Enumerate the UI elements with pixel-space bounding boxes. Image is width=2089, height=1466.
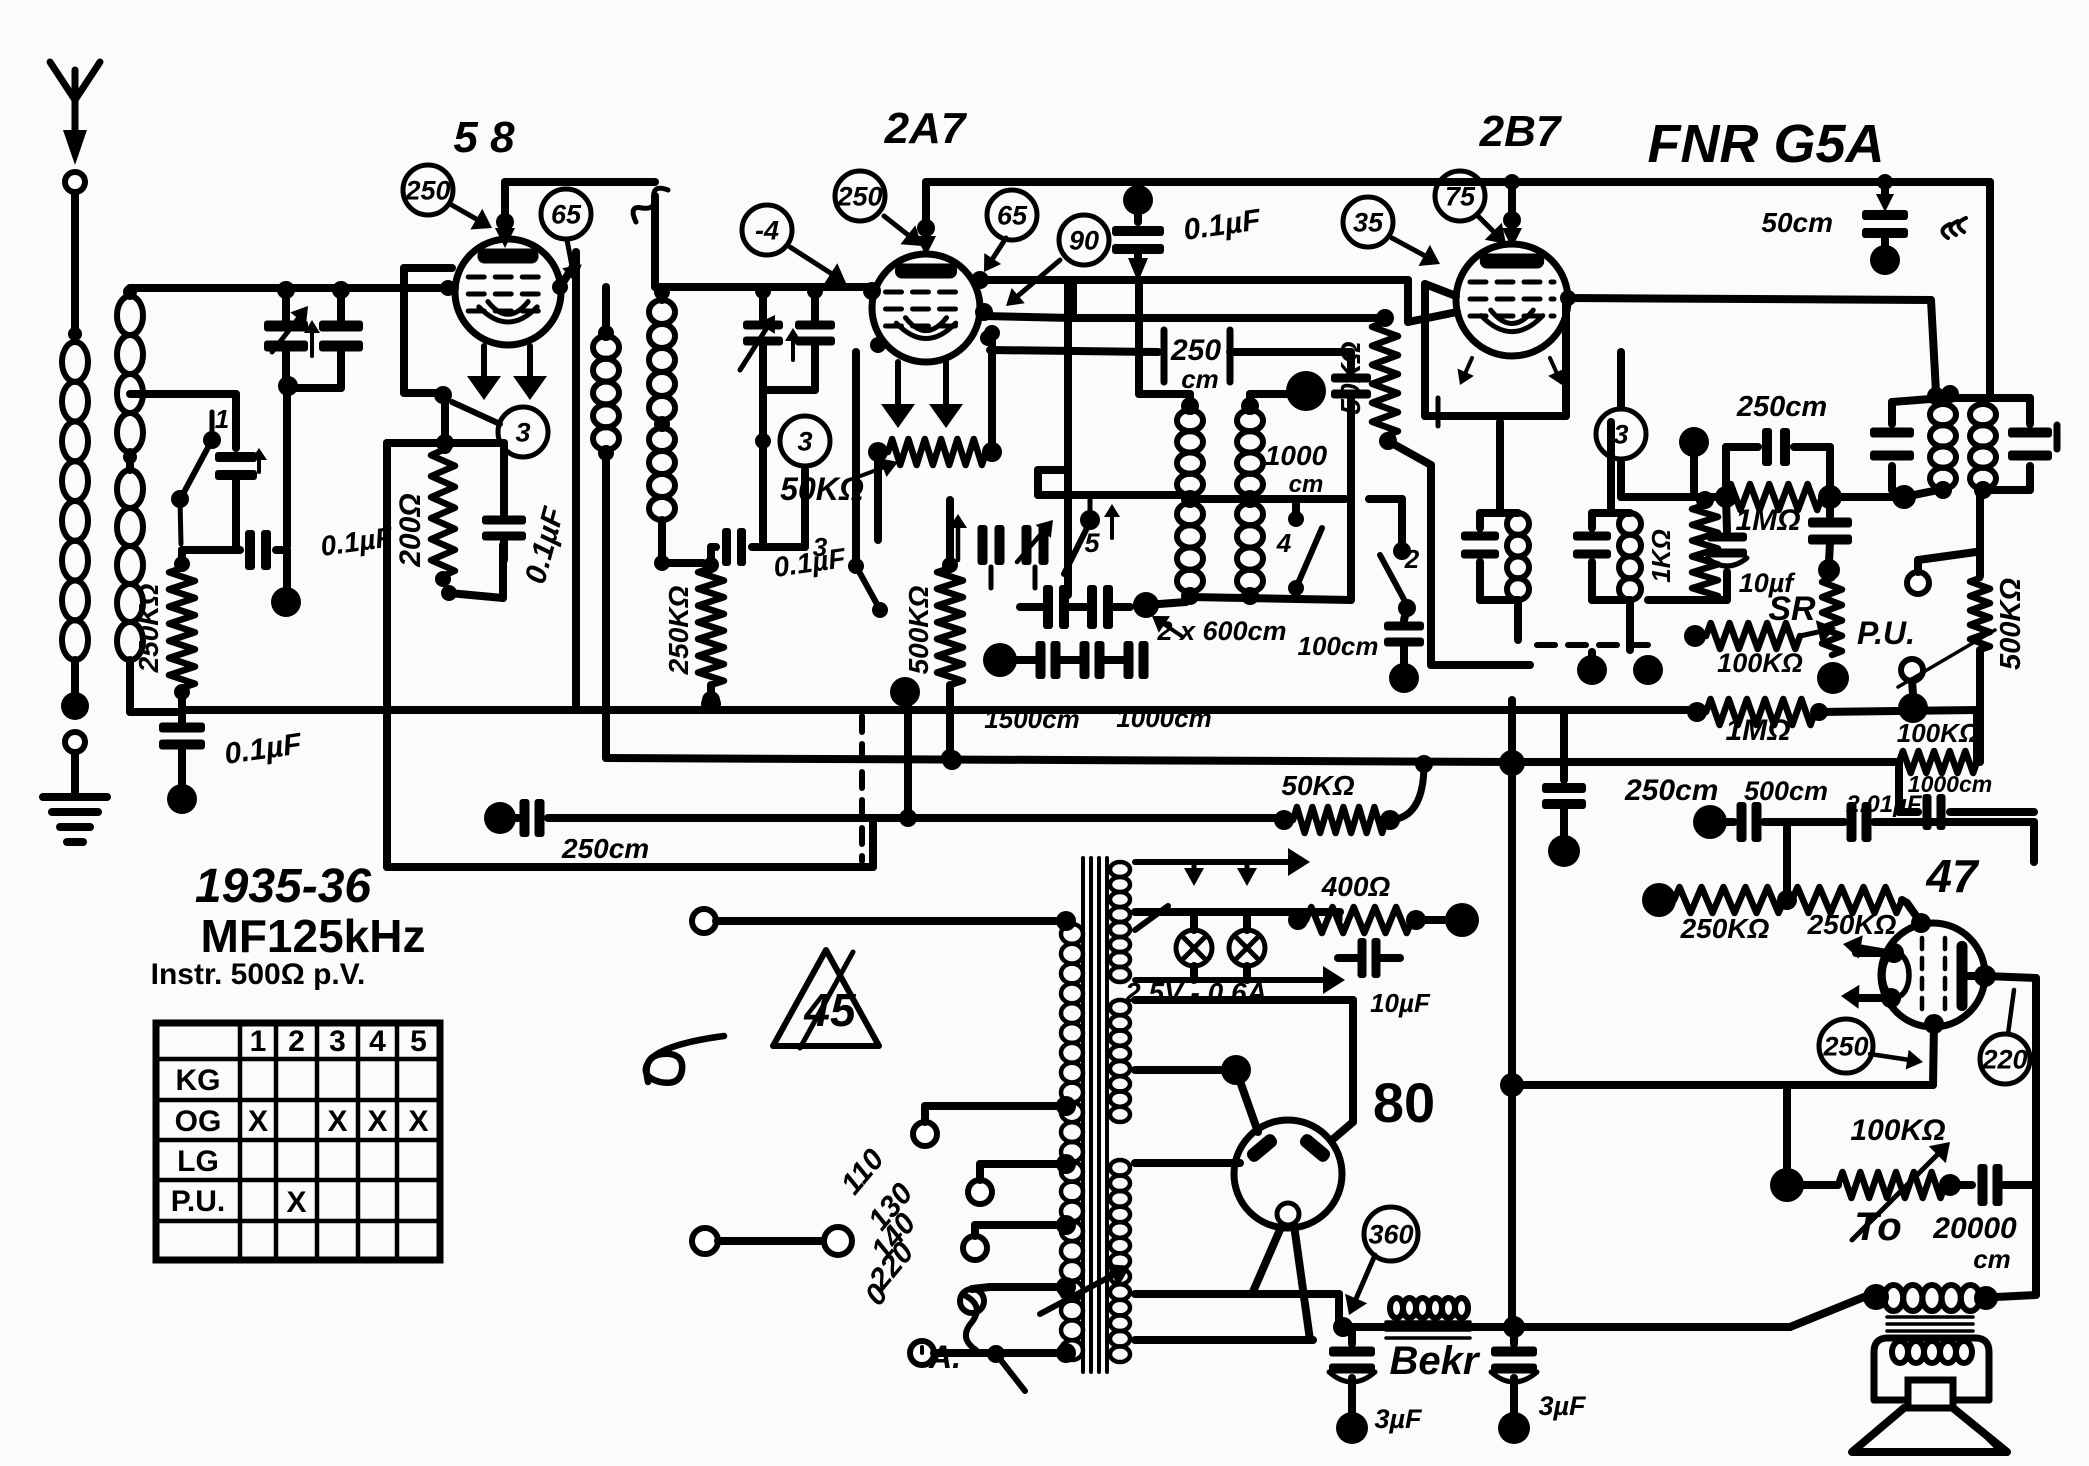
svg-text:2: 2 [1404, 544, 1420, 574]
svg-text:500cm: 500cm [1744, 776, 1828, 806]
svg-text:1000: 1000 [1265, 440, 1328, 471]
svg-text:1: 1 [250, 1025, 267, 1058]
svg-text:100KΩ: 100KΩ [1717, 648, 1803, 678]
svg-text:250KΩ: 250KΩ [133, 583, 164, 673]
svg-text:P.U.: P.U. [171, 1185, 225, 1218]
svg-text:1MΩ: 1MΩ [1725, 714, 1790, 747]
svg-text:250: 250 [1822, 1031, 1868, 1061]
svg-text:X: X [327, 1105, 347, 1138]
svg-text:20000: 20000 [1932, 1212, 2017, 1245]
svg-text:3: 3 [813, 532, 828, 562]
svg-text:220: 220 [1981, 1044, 2027, 1074]
svg-text:50KΩ: 50KΩ [780, 471, 864, 507]
svg-text:4: 4 [369, 1025, 386, 1058]
svg-text:65: 65 [997, 200, 1028, 230]
svg-text:5: 5 [1084, 528, 1100, 558]
svg-text:2B7: 2B7 [1479, 107, 1563, 156]
svg-text:250KΩ: 250KΩ [1807, 909, 1897, 940]
svg-text:50KΩ: 50KΩ [1335, 341, 1366, 414]
svg-text:3: 3 [1613, 419, 1628, 449]
svg-text:80: 80 [1373, 1071, 1435, 1134]
svg-text:250cm: 250cm [1624, 774, 1718, 807]
svg-text:3µF: 3µF [1374, 1404, 1423, 1434]
svg-text:50KΩ: 50KΩ [1281, 770, 1354, 801]
svg-text:KG: KG [176, 1064, 221, 1097]
svg-text:To: To [1854, 1205, 1901, 1249]
svg-text:A.: A. [928, 1339, 961, 1375]
svg-text:cm: cm [1973, 1244, 2011, 1274]
svg-text:360: 360 [1368, 1219, 1413, 1249]
svg-text:500KΩ: 500KΩ [903, 585, 934, 674]
svg-text:Instr. 500Ω p.V.: Instr. 500Ω p.V. [151, 958, 366, 991]
svg-text:Bekr: Bekr [1390, 1339, 1481, 1383]
svg-text:3: 3 [515, 417, 530, 447]
svg-text:250: 250 [1170, 334, 1221, 367]
svg-text:3: 3 [329, 1025, 346, 1058]
svg-text:47: 47 [1925, 850, 1980, 902]
svg-text:5: 5 [410, 1025, 427, 1058]
svg-text:P.U.: P.U. [1857, 615, 1915, 651]
svg-text:cm: cm [1181, 364, 1219, 394]
svg-text:50cm: 50cm [1761, 207, 1833, 238]
svg-text:X: X [248, 1105, 268, 1138]
svg-text:1935-36: 1935-36 [195, 860, 371, 913]
svg-text:200Ω: 200Ω [394, 493, 427, 567]
svg-text:250KΩ: 250KΩ [1680, 913, 1770, 944]
svg-text:-4: -4 [755, 215, 779, 245]
svg-text:2.01µF: 2.01µF [1845, 791, 1923, 818]
svg-text:SR: SR [1768, 590, 1816, 628]
svg-text:400Ω: 400Ω [1321, 871, 1391, 902]
svg-text:90: 90 [1069, 225, 1099, 255]
svg-text:MF125kHz: MF125kHz [201, 910, 426, 962]
svg-text:250: 250 [836, 181, 882, 211]
svg-text:2: 2 [288, 1025, 305, 1058]
svg-text:1: 1 [215, 404, 229, 434]
svg-text:65: 65 [551, 199, 582, 229]
svg-text:3: 3 [797, 426, 812, 456]
svg-text:2 x 600cm: 2 x 600cm [1156, 616, 1286, 646]
svg-text:500KΩ: 500KΩ [1995, 578, 2027, 670]
svg-text:10µF: 10µF [1370, 988, 1431, 1018]
svg-text:2A7: 2A7 [884, 104, 968, 153]
svg-text:FNR G5A: FNR G5A [1647, 114, 1884, 174]
svg-text:X: X [367, 1105, 387, 1138]
svg-text:250KΩ: 250KΩ [663, 585, 694, 675]
svg-text:250cm: 250cm [561, 833, 649, 864]
svg-text:100cm: 100cm [1298, 631, 1379, 661]
svg-text:1MΩ: 1MΩ [1735, 504, 1800, 537]
svg-text:75: 75 [1445, 181, 1476, 211]
svg-text:250cm: 250cm [1736, 391, 1827, 423]
svg-text:1KΩ: 1KΩ [1646, 529, 1676, 583]
svg-text:OG: OG [175, 1105, 222, 1138]
svg-text:100KΩ: 100KΩ [1897, 718, 1979, 748]
svg-text:5 8: 5 8 [453, 113, 515, 162]
svg-text:cm: cm [1289, 471, 1324, 498]
svg-text:3µF: 3µF [1538, 1391, 1587, 1421]
svg-text:X: X [408, 1105, 428, 1138]
svg-text:X: X [286, 1186, 306, 1219]
svg-text:35: 35 [1353, 207, 1384, 237]
svg-text:LG: LG [177, 1145, 219, 1178]
svg-text:100KΩ: 100KΩ [1850, 1114, 1945, 1147]
svg-text:4: 4 [1276, 528, 1292, 558]
svg-text:250: 250 [404, 175, 450, 205]
